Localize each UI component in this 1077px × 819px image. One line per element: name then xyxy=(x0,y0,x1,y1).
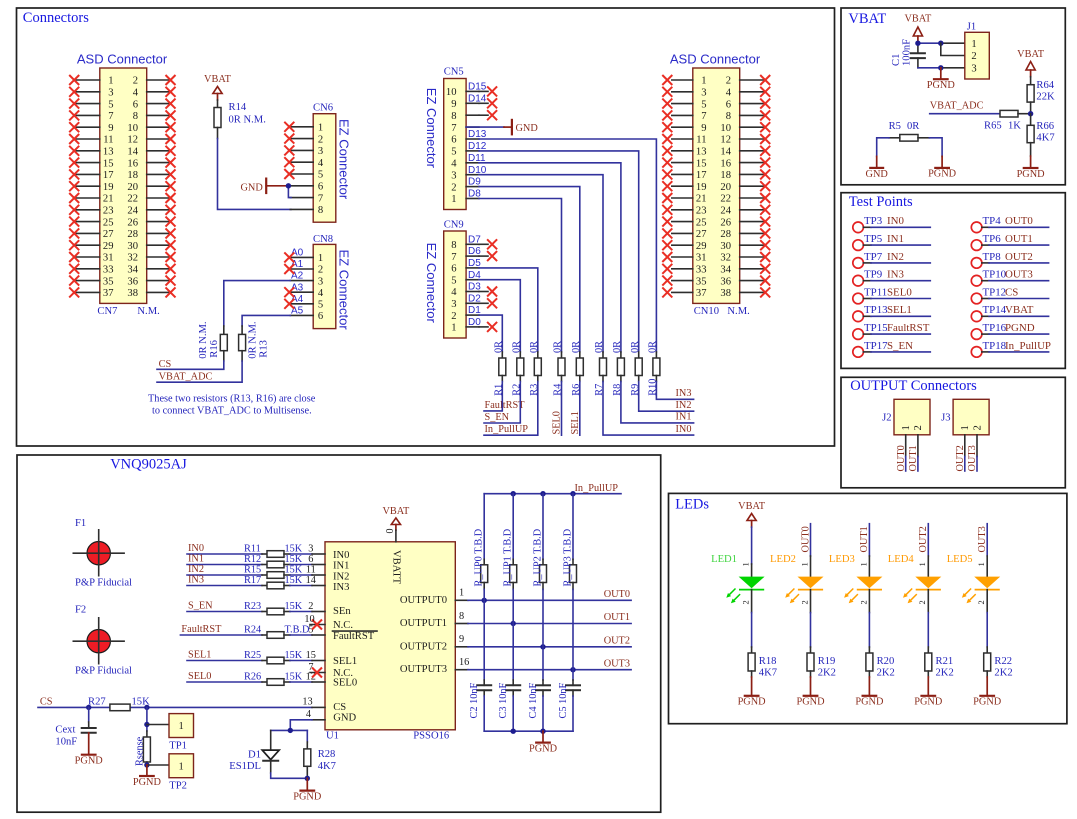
svg-text:TP1: TP1 xyxy=(169,740,187,751)
svg-text:PGND: PGND xyxy=(796,697,825,708)
svg-text:1K: 1K xyxy=(1008,121,1021,132)
svg-text:R11: R11 xyxy=(244,543,261,554)
svg-text:2: 2 xyxy=(971,51,976,62)
svg-text:R16: R16 xyxy=(209,340,220,358)
test pad TP1 xyxy=(169,714,194,752)
wire VBAT to VBATT pin 0 xyxy=(385,529,396,542)
svg-text:33: 33 xyxy=(696,265,707,276)
net label IN0 + wire from R7 xyxy=(603,382,694,436)
svg-text:PGND: PGND xyxy=(914,697,943,708)
svg-text:37: 37 xyxy=(696,288,707,299)
section box OUTPUT Connectors xyxy=(841,377,1065,488)
wire LED2 to R19 xyxy=(810,590,812,647)
svg-text:15K: 15K xyxy=(285,650,303,661)
svg-text:9: 9 xyxy=(108,123,113,134)
svg-text:N.M.: N.M. xyxy=(727,306,749,317)
svg-text:2K2: 2K2 xyxy=(818,667,836,678)
connector CN6 (EZ Connector) xyxy=(290,103,351,223)
svg-text:2: 2 xyxy=(858,600,868,604)
resistor R20 2K2 xyxy=(866,647,895,678)
resistor R8 0R xyxy=(612,341,624,396)
svg-text:14: 14 xyxy=(127,147,138,158)
svg-text:0R: 0R xyxy=(529,341,540,353)
svg-text:15: 15 xyxy=(306,650,316,661)
test point TP4 net OUT0 xyxy=(971,215,1048,232)
svg-text:R22: R22 xyxy=(994,656,1012,667)
svg-text:U1: U1 xyxy=(326,730,339,741)
svg-text:OUT0: OUT0 xyxy=(896,445,907,471)
svg-text:26: 26 xyxy=(720,217,731,228)
svg-text:R21: R21 xyxy=(936,656,954,667)
svg-text:27: 27 xyxy=(103,229,114,240)
svg-text:15: 15 xyxy=(103,158,114,169)
wire C3 to PGND rail xyxy=(512,696,514,731)
IC U1 VNQ9025AJ (PSSO16) xyxy=(325,542,455,742)
svg-text:22K: 22K xyxy=(1036,91,1055,102)
power symbol PGND under J1 wires xyxy=(927,68,956,91)
svg-text:OUT1: OUT1 xyxy=(908,445,919,471)
svg-text:32: 32 xyxy=(127,253,138,264)
svg-text:0R: 0R xyxy=(630,341,641,353)
svg-text:4: 4 xyxy=(306,709,311,720)
svg-text:20: 20 xyxy=(720,182,731,193)
svg-text:TP3: TP3 xyxy=(864,215,883,227)
svg-text:34: 34 xyxy=(127,265,138,276)
svg-text:VBAT: VBAT xyxy=(1005,304,1034,316)
svg-text:2: 2 xyxy=(308,601,313,612)
svg-text:27: 27 xyxy=(696,229,707,240)
svg-text:R66: R66 xyxy=(1036,121,1054,132)
svg-text:8: 8 xyxy=(451,240,456,251)
svg-text:PGND: PGND xyxy=(133,777,162,788)
svg-text:8: 8 xyxy=(726,111,731,122)
svg-text:3: 3 xyxy=(451,299,456,310)
svg-text:ASD Connector: ASD Connector xyxy=(670,52,761,67)
wire net D4 from CN9 pin5 to R2 xyxy=(468,270,520,352)
wire R_UP0 to OUTPUT junction and C2 xyxy=(483,589,485,680)
power symbol PGND under capacitor rail xyxy=(529,731,558,754)
svg-text:VBAT_ADC: VBAT_ADC xyxy=(930,100,984,111)
capacitor C3 10nF xyxy=(498,680,521,719)
svg-text:0R: 0R xyxy=(553,341,564,353)
svg-text:IN3: IN3 xyxy=(188,575,204,586)
svg-text:OUT3: OUT3 xyxy=(967,445,978,471)
resistor R9 0R xyxy=(630,341,642,396)
net S_EN - resistor R23 15K to U1 pin 2 xyxy=(187,601,325,615)
svg-text:0R N.M.: 0R N.M. xyxy=(198,321,209,358)
svg-text:35: 35 xyxy=(103,276,114,287)
svg-text:VBAT_ADC: VBAT_ADC xyxy=(159,372,213,383)
no-connect X marks CN10 xyxy=(662,75,770,297)
wire CN6 pin6 to pin7 + junction xyxy=(286,183,291,198)
LED LED5 xyxy=(947,554,1000,605)
wire net D10 from CN5 to resistor column xyxy=(468,165,603,352)
svg-text:R_UP2 T.B.D: R_UP2 T.B.D xyxy=(532,528,543,586)
svg-text:6: 6 xyxy=(133,99,138,110)
svg-text:C2 10nF: C2 10nF xyxy=(469,682,480,718)
svg-text:C5 10nF: C5 10nF xyxy=(558,682,569,718)
svg-text:TP9: TP9 xyxy=(864,269,882,281)
connector CN8 (EZ Connector) xyxy=(290,234,351,331)
test point TP9 net IN3 xyxy=(853,269,931,286)
svg-text:OUTPUT2: OUTPUT2 xyxy=(400,641,447,652)
svg-text:SEL1: SEL1 xyxy=(333,656,357,667)
svg-text:EZ Connector: EZ Connector xyxy=(337,250,352,331)
svg-text:R_UP1 T.B.D: R_UP1 T.B.D xyxy=(503,528,514,586)
svg-text:OUTPUT0: OUTPUT0 xyxy=(400,595,447,606)
fiducial F1 xyxy=(73,518,132,589)
svg-text:12: 12 xyxy=(720,135,731,146)
svg-text:P&P Fiducial: P&P Fiducial xyxy=(75,578,132,589)
net labels OUT2 OUT3 under J3 xyxy=(955,445,978,471)
svg-text:PGND: PGND xyxy=(75,756,104,767)
svg-text:2: 2 xyxy=(913,425,924,430)
svg-text:5: 5 xyxy=(108,99,113,110)
svg-text:VBAT: VBAT xyxy=(848,11,886,27)
svg-text:4: 4 xyxy=(133,88,139,99)
net label VBAT_ADC + wire to R13 xyxy=(157,361,242,383)
svg-text:13: 13 xyxy=(696,147,707,158)
svg-text:R_UP0 T.B.D: R_UP0 T.B.D xyxy=(474,528,485,586)
wire LED1 to R18 xyxy=(751,590,753,647)
svg-text:1: 1 xyxy=(701,76,706,87)
svg-text:3: 3 xyxy=(108,88,113,99)
junction D1/R28/PGND xyxy=(305,776,310,781)
svg-text:37: 37 xyxy=(103,288,114,299)
svg-text:N.M.: N.M. xyxy=(137,306,159,317)
svg-text:15K: 15K xyxy=(285,671,303,682)
svg-text:OUT0: OUT0 xyxy=(604,589,630,600)
power symbol PGND under R22 xyxy=(973,677,1002,708)
svg-text:36: 36 xyxy=(127,276,138,287)
svg-text:15K: 15K xyxy=(285,575,303,586)
svg-text:4: 4 xyxy=(318,288,324,299)
wire VBAT/C1 to J1 pin1 xyxy=(915,41,965,46)
LED LED4 xyxy=(888,554,941,605)
net SEL0 - resistor R26 15K to U1 pin 12 xyxy=(187,671,325,685)
svg-text:CS: CS xyxy=(40,697,53,708)
net label S_EN + wire from R2 xyxy=(484,382,520,424)
svg-text:T.B.D: T.B.D xyxy=(285,624,311,635)
svg-text:These two resistors (R13, R16): These two resistors (R13, R16) are close xyxy=(148,394,316,405)
junction CS/Cext xyxy=(86,705,91,710)
svg-text:7: 7 xyxy=(451,252,456,263)
svg-text:IN0: IN0 xyxy=(675,424,691,435)
resistor R_UP2 T.B.D (pull-up) xyxy=(532,494,546,590)
svg-text:D0: D0 xyxy=(468,317,481,328)
power symbol PGND under R20 xyxy=(855,677,884,708)
svg-text:GND: GND xyxy=(866,169,889,180)
svg-text:2: 2 xyxy=(133,76,138,87)
svg-text:IN2: IN2 xyxy=(333,572,349,583)
svg-text:PGND: PGND xyxy=(738,697,767,708)
svg-text:R13: R13 xyxy=(259,340,270,358)
svg-text:6: 6 xyxy=(308,554,313,565)
power symbol PGND under R66 xyxy=(1017,156,1046,180)
svg-text:LED1: LED1 xyxy=(711,554,737,565)
svg-text:R_UP3 T.B.D: R_UP3 T.B.D xyxy=(562,528,573,586)
wire LED3 to R20 xyxy=(868,590,870,647)
svg-text:IN3: IN3 xyxy=(333,582,349,593)
svg-text:3: 3 xyxy=(451,170,456,181)
svg-text:38: 38 xyxy=(720,288,731,299)
no-connect X marks CN9 pins 8,7,4,3,1 with labels D7 D6 D3 D2 D0 xyxy=(468,234,497,332)
svg-text:16: 16 xyxy=(720,158,731,169)
svg-text:TP10: TP10 xyxy=(983,269,1007,281)
svg-text:Rsense: Rsense xyxy=(134,736,145,766)
resistor R18 4K7 xyxy=(748,647,777,678)
svg-text:FaultRST: FaultRST xyxy=(333,631,375,642)
test point TP17 net S_EN xyxy=(853,340,931,357)
svg-text:5: 5 xyxy=(318,300,323,311)
section box Connectors xyxy=(17,8,835,446)
no-connect X marks CN5 pins 8,9,10 xyxy=(479,86,497,120)
svg-text:10: 10 xyxy=(127,123,138,134)
resistor R27 15K (horizontal) xyxy=(88,697,150,711)
connector CN7 (ASD Connector, left, N.M.) xyxy=(75,52,170,317)
power symbol PGND under R19 xyxy=(796,677,825,708)
test point TP13 net SEL1 xyxy=(853,304,931,321)
net label IN2 + wire from R9 xyxy=(639,382,694,412)
svg-text:1: 1 xyxy=(459,588,464,599)
svg-text:15K: 15K xyxy=(285,564,303,575)
wire R_UP3 to OUTPUT junction and C5 xyxy=(572,589,574,680)
net labels D15 D14 at CN5 xyxy=(468,82,487,105)
wire net D9 from CN5 to resistor column xyxy=(468,177,580,352)
svg-text:32: 32 xyxy=(720,253,731,264)
svg-text:VBAT: VBAT xyxy=(1017,49,1045,60)
diode D1 ES1DL xyxy=(229,730,279,773)
svg-text:LED3: LED3 xyxy=(829,554,855,565)
svg-text:10: 10 xyxy=(446,87,457,98)
svg-text:IN3: IN3 xyxy=(887,269,904,281)
svg-text:CS: CS xyxy=(159,359,172,370)
svg-text:Test Points: Test Points xyxy=(849,194,913,210)
power symbol VBAT (above C1/J1) xyxy=(904,14,932,44)
svg-text:14: 14 xyxy=(306,575,316,586)
svg-text:LED2: LED2 xyxy=(770,554,796,565)
svg-text:5: 5 xyxy=(451,275,456,286)
svg-text:6: 6 xyxy=(451,264,456,275)
svg-text:CS: CS xyxy=(1005,286,1018,298)
svg-text:OUT3: OUT3 xyxy=(977,526,988,552)
svg-text:IN2: IN2 xyxy=(675,400,691,411)
junction Rsense/TP1 + wire to TP1 xyxy=(144,722,169,727)
svg-text:10nF: 10nF xyxy=(55,736,77,747)
wire R_UP2 to OUTPUT junction and C4 xyxy=(542,589,544,680)
ground symbol GND at CN6 pin 6 xyxy=(240,179,288,194)
power symbol PGND under R18 xyxy=(738,677,767,708)
svg-text:C4 10nF: C4 10nF xyxy=(528,682,539,718)
svg-text:IN1: IN1 xyxy=(188,554,204,565)
svg-text:TP14: TP14 xyxy=(983,304,1007,316)
svg-text:34: 34 xyxy=(720,265,731,276)
svg-text:6: 6 xyxy=(451,135,456,146)
svg-text:C1: C1 xyxy=(891,54,902,66)
svg-text:17: 17 xyxy=(696,170,707,181)
svg-text:5: 5 xyxy=(701,99,706,110)
connector J3 xyxy=(941,399,989,471)
resistor R_UP1 T.B.D (pull-up) xyxy=(503,494,517,590)
resistor R3 0R xyxy=(529,341,541,396)
svg-text:R65: R65 xyxy=(984,121,1002,132)
svg-text:1: 1 xyxy=(451,194,456,205)
svg-text:SEL0: SEL0 xyxy=(188,671,211,682)
net label CS + wire to U1 pin 13 xyxy=(38,697,325,708)
svg-text:22: 22 xyxy=(127,194,138,205)
svg-text:8: 8 xyxy=(459,611,464,622)
svg-text:2: 2 xyxy=(799,600,809,604)
LED LED2 xyxy=(770,554,823,605)
svg-text:1: 1 xyxy=(741,562,751,566)
svg-text:36: 36 xyxy=(720,276,731,287)
svg-text:15K: 15K xyxy=(285,601,303,612)
svg-text:PGND: PGND xyxy=(529,743,558,754)
test point TP7 net IN2 xyxy=(853,251,931,268)
svg-text:1: 1 xyxy=(451,323,456,334)
svg-text:OUT2: OUT2 xyxy=(918,526,929,552)
svg-text:11: 11 xyxy=(103,135,113,146)
svg-text:11: 11 xyxy=(306,564,316,575)
svg-text:OUT3: OUT3 xyxy=(604,658,630,669)
wire U1 OUTPUT pin 9 to net OUT2 xyxy=(455,634,631,649)
svg-text:IN0: IN0 xyxy=(887,215,904,227)
svg-text:VBAT: VBAT xyxy=(382,506,410,517)
svg-text:23: 23 xyxy=(103,206,114,217)
test point TP15 net FaultRST xyxy=(853,322,931,339)
svg-text:D15: D15 xyxy=(468,82,487,93)
svg-text:OUT2: OUT2 xyxy=(604,636,630,647)
svg-text:R20: R20 xyxy=(877,656,895,667)
svg-text:PSSO16: PSSO16 xyxy=(413,730,449,741)
svg-text:S_EN: S_EN xyxy=(485,412,510,423)
svg-text:1: 1 xyxy=(917,562,927,566)
svg-text:28: 28 xyxy=(720,229,731,240)
svg-text:IN0: IN0 xyxy=(188,543,204,554)
svg-text:EZ Connector: EZ Connector xyxy=(424,243,439,324)
svg-text:15: 15 xyxy=(696,158,707,169)
svg-text:TP7: TP7 xyxy=(864,251,883,263)
svg-text:4: 4 xyxy=(726,88,732,99)
net IN0 - resistor R11 15K to U1 pin 3 xyxy=(187,543,325,557)
wire D1 anode to R28 bottom xyxy=(271,773,308,778)
svg-text:In_PullUP: In_PullUP xyxy=(1005,340,1051,352)
svg-text:OUTPUT3: OUTPUT3 xyxy=(400,664,447,675)
net label OUT3 + wire to LED5 xyxy=(977,524,988,578)
connector J1 xyxy=(965,21,990,79)
svg-text:R18: R18 xyxy=(759,656,777,667)
net IN1 - resistor R12 15K to U1 pin 6 xyxy=(187,554,325,568)
test point TP3 net IN0 xyxy=(853,215,931,232)
net label VBAT_ADC + wire to R65 xyxy=(930,100,1000,113)
svg-text:GND: GND xyxy=(333,713,356,724)
power symbol VBAT above U1 VBATT pin xyxy=(382,506,410,530)
note text about R13 R16 xyxy=(148,394,316,417)
net label OUT2 + wire to LED4 xyxy=(918,524,929,578)
svg-text:1: 1 xyxy=(858,562,868,566)
resistor R22 2K2 xyxy=(984,647,1013,678)
test point TP11 net SEL0 xyxy=(853,286,931,303)
svg-text:IN3: IN3 xyxy=(675,388,691,399)
svg-text:CN5: CN5 xyxy=(444,67,464,78)
wire net D5 from CN9 pin6 to R3 xyxy=(468,258,538,352)
resistor R7 0R xyxy=(594,341,606,396)
svg-text:R14: R14 xyxy=(229,102,247,113)
svg-text:16: 16 xyxy=(459,657,469,668)
wire net D13 from CN5 to resistor column xyxy=(468,129,656,352)
resistor R_UP3 T.B.D (pull-up) xyxy=(562,494,576,590)
svg-text:J1: J1 xyxy=(967,21,976,32)
svg-text:J3: J3 xyxy=(941,412,950,423)
wire PGND rail (bottom) xyxy=(484,729,573,734)
svg-text:22: 22 xyxy=(720,194,731,205)
wire VBAT to LED1 xyxy=(751,527,753,578)
wire net D8 from CN5 to resistor column xyxy=(468,189,562,352)
svg-text:PGND: PGND xyxy=(855,697,884,708)
svg-text:35: 35 xyxy=(696,276,707,287)
test point TP14 net VBAT xyxy=(971,304,1048,321)
svg-text:to connect VBAT_ADC to Multise: to connect VBAT_ADC to Multisense. xyxy=(152,406,312,417)
svg-text:4: 4 xyxy=(318,158,324,169)
section box VNQ9025AJ xyxy=(17,455,661,812)
svg-text:4: 4 xyxy=(451,159,457,170)
svg-text:PGND: PGND xyxy=(973,697,1002,708)
svg-text:R26: R26 xyxy=(244,671,261,682)
no-connect X at U1 pin 10 (N.C.) xyxy=(304,614,325,630)
net IN2 - resistor R15 15K to U1 pin 11 xyxy=(187,564,325,578)
svg-text:6: 6 xyxy=(318,311,323,322)
svg-text:CN10: CN10 xyxy=(694,306,719,317)
svg-text:0R: 0R xyxy=(594,341,605,353)
svg-text:IN1: IN1 xyxy=(333,561,349,572)
svg-text:1: 1 xyxy=(799,562,809,566)
svg-text:VBATT: VBATT xyxy=(390,550,401,585)
svg-text:7: 7 xyxy=(108,111,113,122)
svg-text:1: 1 xyxy=(108,76,113,87)
svg-text:LED4: LED4 xyxy=(888,554,915,565)
svg-text:6: 6 xyxy=(318,182,323,193)
svg-text:TP2: TP2 xyxy=(169,781,187,792)
svg-text:S_EN: S_EN xyxy=(188,601,213,612)
svg-text:8: 8 xyxy=(451,111,456,122)
no-connect X marks CN7 xyxy=(69,75,175,297)
test pad TP2 xyxy=(169,754,194,792)
resistor R10 0R xyxy=(648,341,660,396)
wire net D12 from CN5 to resistor column xyxy=(468,141,639,352)
svg-text:29: 29 xyxy=(103,241,114,252)
svg-text:IN0: IN0 xyxy=(333,550,349,561)
svg-text:4K7: 4K7 xyxy=(318,761,336,772)
svg-text:OUTPUT Connectors: OUTPUT Connectors xyxy=(850,378,977,394)
test point TP12 net CS xyxy=(971,286,1048,303)
svg-text:2: 2 xyxy=(726,76,731,87)
svg-text:0: 0 xyxy=(385,529,396,534)
svg-text:1: 1 xyxy=(976,562,986,566)
svg-text:3: 3 xyxy=(971,64,976,75)
net IN3 - resistor R17 15K to U1 pin 14 xyxy=(187,575,325,589)
svg-text:GND: GND xyxy=(516,123,539,134)
section box VBAT xyxy=(841,8,1065,185)
resistor R5 0R (horizontal) xyxy=(889,121,921,141)
svg-text:16: 16 xyxy=(127,158,138,169)
test point TP16 net PGND xyxy=(971,322,1048,339)
LED LED3 xyxy=(829,554,882,605)
svg-text:9: 9 xyxy=(451,99,456,110)
power symbol PGND under Rsense xyxy=(133,765,162,788)
svg-text:D3: D3 xyxy=(468,282,481,293)
wire LED5 to R22 xyxy=(986,590,988,647)
svg-text:25: 25 xyxy=(103,217,114,228)
